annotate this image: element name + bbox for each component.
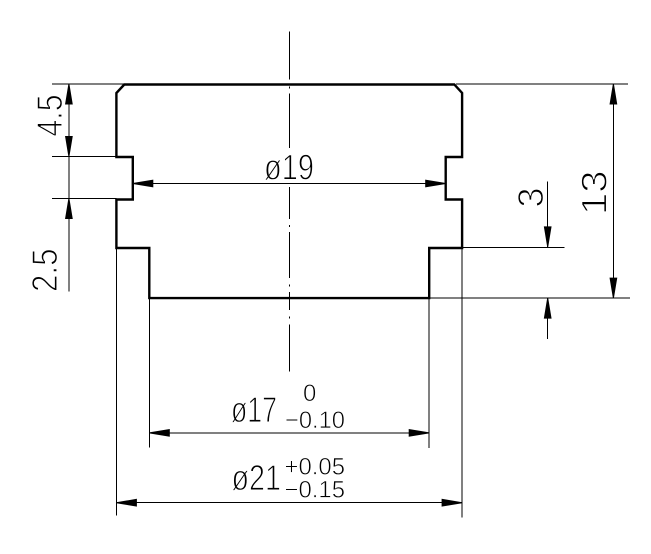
dim d21 left arrow [116,499,136,506]
dim 4.5 top arrow (up) [66,84,73,104]
extension line right lower x=429.2 down for dim d17 [428,298,430,448]
extension line top-left (y=84) [52,83,124,85]
dim d17 right arrow [409,430,429,437]
dimension 4.5 / 2.5 vertical line at x=68.9 [68,84,70,292]
extension line bottom-right (y=298.1) [429,297,630,299]
svg-text:2.5: 2.5 [24,249,65,293]
dimension d19 left arrow [133,180,153,187]
extension line left lower x=149.3 down for dim d17 [148,298,150,447]
extension line right outer x=462.1 down for dim d21 [461,248,463,517]
dimension 13 line [612,84,614,298]
svg-text:−0.15: −0.15 [285,476,346,503]
svg-text:3: 3 [510,187,551,207]
dimension 3 lower segment [547,298,549,339]
extension line left outer x=116.4 down for dim d21 [115,248,117,516]
extension line groove top left (y=156.5) [52,156,116,158]
dim 3 down arrow [544,227,551,247]
dimension d17 line [149,432,429,434]
dimension d19 line [133,183,446,185]
extension line right step for dim 3 (y=247.5) [462,247,564,249]
dim 13 top arrow [610,84,617,104]
svg-text:−0.10: −0.10 [285,407,345,434]
dim 13 bottom arrow [610,278,617,298]
dim d17 left arrow [149,430,169,437]
dim d21 right arrow [442,499,462,506]
svg-text:ø17: ø17 [231,389,277,430]
svg-text:4.5: 4.5 [29,95,70,137]
extension line groove bottom left (y=198.5) [52,198,116,200]
dim 4.5 bottom arrow (down) [66,137,73,157]
svg-text:13: 13 [574,170,615,215]
dim 3 up arrow [544,298,551,318]
dimension 3 upper segment [547,182,549,247]
dimension d19 right arrow [426,180,446,187]
svg-text:0: 0 [303,380,316,407]
svg-text:ø19: ø19 [264,147,314,188]
dimension d21 line [116,502,462,504]
svg-text:ø21: ø21 [232,457,282,498]
vertical centerline (dash-dot segments) [289,32,291,372]
extension line top-right for dim 13 (y=84) [456,83,628,85]
part outline (cross-section of stepped cylindrical cap) [116,85,462,299]
dim 2.5 arrow (up, outside) [66,199,73,219]
